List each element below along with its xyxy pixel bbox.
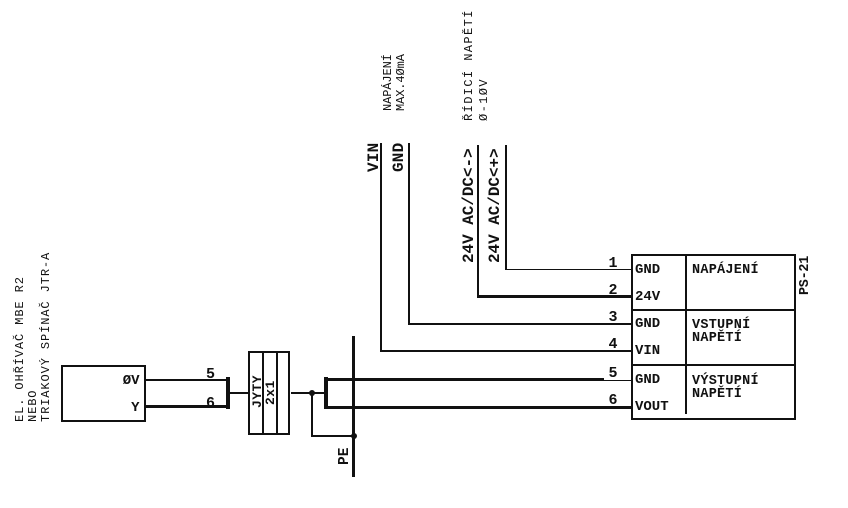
cable divider 2 — [276, 353, 278, 433]
node terminal number 5 — [609, 366, 618, 381]
controller PS-21 box — [631, 254, 796, 420]
cable JYTY 2x1 box — [248, 351, 290, 435]
node wire number 5 left — [206, 367, 215, 382]
node terminal number 1 — [609, 256, 618, 271]
node Y terminal label — [131, 401, 139, 415]
heater annotation line 3 — [40, 251, 52, 421]
node terminal number 6 — [609, 393, 618, 408]
node RIDICI NAPETI annotation — [463, 9, 475, 121]
heater annotation line 1 — [14, 276, 26, 422]
node junction dot on PE — [351, 433, 357, 439]
cable marker bar right — [324, 377, 328, 409]
cable size label 2x1 — [264, 380, 277, 405]
wire VIN vertical — [380, 143, 382, 352]
node VIN label — [366, 142, 382, 171]
node wire number 6 left — [206, 396, 215, 411]
node terminal number 4 — [609, 337, 618, 352]
row divider 1 — [633, 309, 794, 311]
node terminal number 3 — [609, 310, 618, 325]
wire VIN to terminal 4 — [380, 350, 631, 352]
node GND label — [391, 142, 407, 171]
wire VOUT to terminal 6 — [328, 406, 631, 409]
wire GND to terminal 3 — [408, 323, 631, 325]
wire GND to terminal 5 thin — [604, 380, 631, 382]
wire GND vertical — [408, 143, 410, 325]
pin VIN terminal 4 — [635, 344, 660, 358]
pin GND terminal 3 — [635, 317, 660, 331]
node PS-21 designator — [799, 255, 813, 294]
column divider — [685, 256, 687, 413]
node NAPAJENI annotation — [382, 54, 394, 111]
wire 24V AC/DC(+) vertical — [505, 145, 507, 270]
section VSTUPNI NAPETI — [692, 319, 750, 345]
wire 5 from heater box — [146, 379, 227, 381]
PE ground bus — [352, 336, 355, 477]
heater annotation line 2 — [27, 389, 39, 421]
node PE label — [338, 448, 353, 465]
pin GND terminal 5 — [635, 373, 660, 387]
wire 24V AC/DC(-) vertical — [477, 145, 480, 298]
pin 24V terminal 2 — [635, 290, 660, 304]
node 24V AC/DC(+) label — [487, 148, 503, 263]
wire 6 from heater box — [146, 405, 227, 408]
node terminal number 2 — [609, 283, 618, 298]
section NAPAJENI — [692, 264, 759, 277]
wire shield drop horizontal — [311, 435, 355, 437]
cable type label JYTY — [251, 374, 264, 407]
heater / triac switch box — [61, 365, 146, 422]
row divider 2 — [633, 364, 794, 366]
wire 24V AC/DC(+) to terminal 1 — [505, 269, 631, 271]
node 0V terminal label — [123, 374, 140, 388]
wire 24V AC/DC(-) to terminal 2 — [477, 295, 631, 298]
wire GND to terminal 5 thick — [328, 378, 604, 381]
wire shield drop vertical — [311, 393, 313, 436]
node 24V AC/DC(-) label — [461, 148, 477, 263]
wire cable trunk right — [291, 392, 325, 394]
cable divider 1 — [262, 353, 264, 433]
node junction dot — [309, 390, 315, 396]
pin VOUT terminal 6 — [635, 400, 669, 414]
section VYSTUPNI NAPETI — [692, 375, 759, 401]
pin GND terminal 1 — [635, 263, 660, 277]
value label 0-10V — [478, 78, 490, 121]
value label MAX.40mA — [395, 54, 407, 111]
cable marker bar left — [226, 377, 230, 409]
wire cable trunk left — [230, 392, 249, 394]
